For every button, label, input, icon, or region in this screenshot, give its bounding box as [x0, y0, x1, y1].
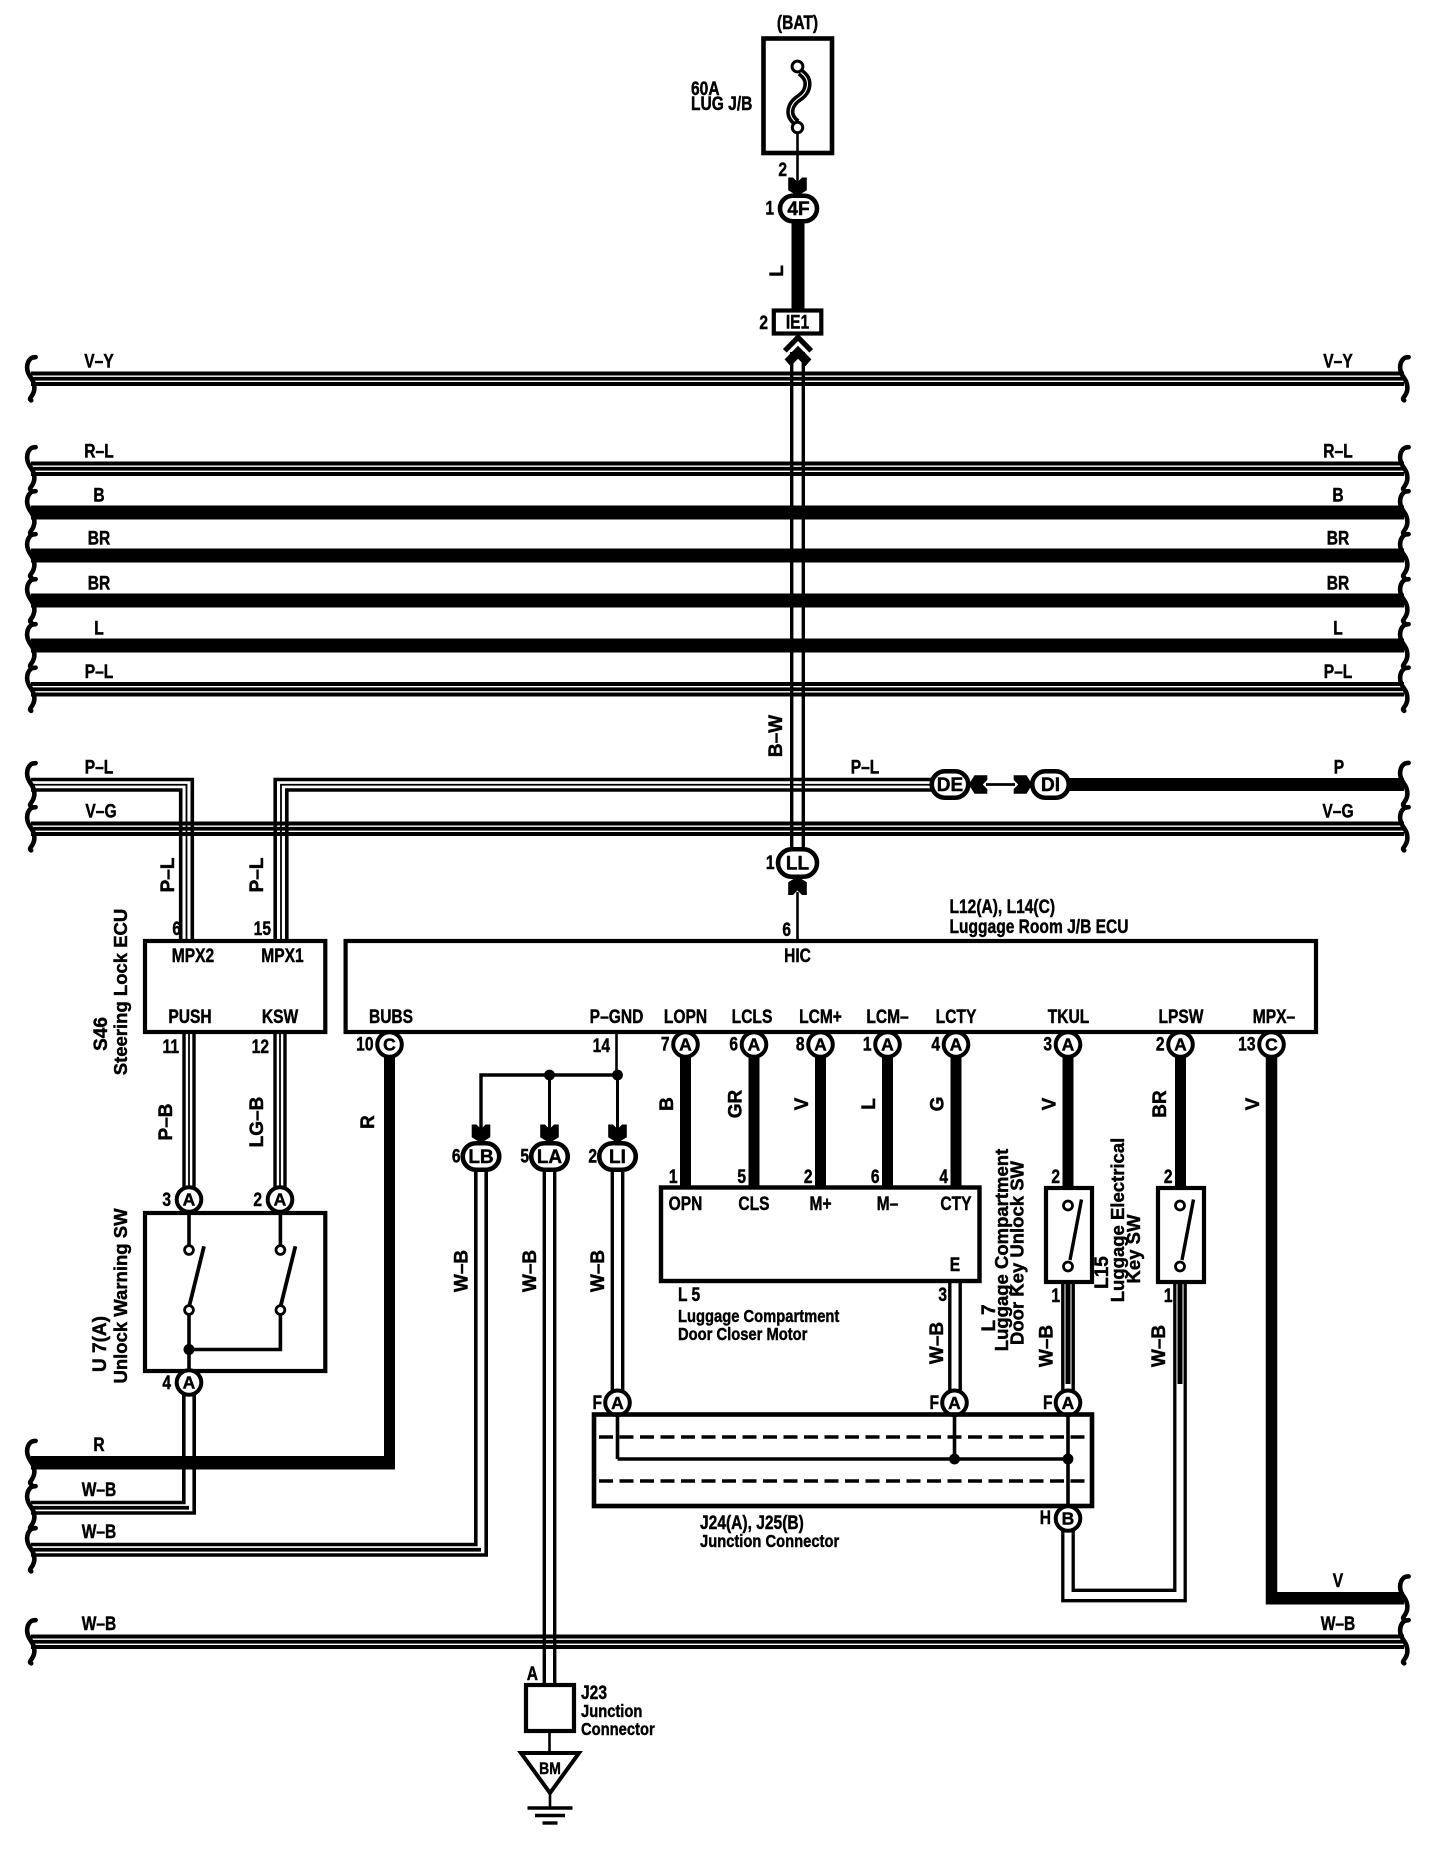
svg-text:Unlock Warning SW: Unlock Warning SW	[110, 1208, 131, 1384]
svg-text:L 5: L 5	[678, 1284, 701, 1306]
svg-text:V–G: V–G	[85, 800, 116, 822]
svg-text:Luggage Compartment: Luggage Compartment	[678, 1307, 840, 1327]
svg-text:P: P	[1334, 756, 1344, 778]
svg-text:A: A	[183, 1373, 196, 1393]
svg-text:3: 3	[1043, 1033, 1052, 1055]
svg-text:LCLS: LCLS	[732, 1006, 773, 1028]
svg-text:U 7(A): U 7(A)	[90, 1316, 111, 1372]
svg-text:V: V	[1040, 1097, 1061, 1110]
svg-text:1: 1	[765, 197, 774, 219]
svg-text:F: F	[592, 1392, 602, 1414]
svg-text:Door Key Unlock SW: Door Key Unlock SW	[1007, 1160, 1028, 1345]
svg-text:A: A	[611, 1393, 624, 1413]
svg-text:BR: BR	[1327, 572, 1350, 594]
svg-text:3: 3	[162, 1189, 171, 1211]
svg-text:LB: LB	[468, 1147, 493, 1168]
svg-text:GR: GR	[726, 1089, 747, 1118]
svg-text:1: 1	[1164, 1285, 1173, 1307]
svg-text:L: L	[859, 1098, 880, 1110]
svg-text:BM: BM	[539, 1760, 561, 1779]
svg-text:8: 8	[796, 1033, 805, 1055]
svg-text:Junction: Junction	[581, 1702, 642, 1722]
svg-text:CTY: CTY	[940, 1193, 972, 1215]
svg-text:2: 2	[1051, 1166, 1060, 1188]
svg-text:LL: LL	[786, 854, 810, 875]
svg-text:Connector: Connector	[581, 1720, 655, 1740]
svg-text:LCM+: LCM+	[799, 1006, 842, 1028]
svg-text:2: 2	[1164, 1166, 1173, 1188]
svg-text:R: R	[93, 1434, 105, 1456]
svg-text:LI: LI	[609, 1147, 626, 1168]
svg-text:Door Closer Motor: Door Closer Motor	[678, 1325, 808, 1345]
svg-text:R–L: R–L	[1323, 440, 1353, 462]
svg-text:M–: M–	[877, 1193, 899, 1215]
svg-text:5: 5	[520, 1145, 529, 1167]
svg-text:A: A	[1174, 1035, 1187, 1055]
svg-text:12: 12	[252, 1036, 269, 1058]
svg-text:A: A	[679, 1035, 692, 1055]
svg-text:V: V	[1243, 1097, 1264, 1110]
svg-text:6: 6	[729, 1033, 738, 1055]
svg-text:14: 14	[593, 1035, 611, 1057]
svg-text:W–B: W–B	[82, 1479, 117, 1501]
svg-text:W–B: W–B	[1149, 1325, 1170, 1367]
svg-text:J23: J23	[581, 1682, 607, 1704]
svg-text:LUG J/B: LUG J/B	[691, 93, 752, 115]
svg-text:W–B: W–B	[1321, 1613, 1356, 1635]
svg-text:2: 2	[778, 159, 787, 181]
svg-text:M+: M+	[809, 1193, 831, 1215]
svg-text:F: F	[1043, 1392, 1053, 1414]
svg-text:11: 11	[163, 1036, 180, 1058]
svg-text:2: 2	[588, 1145, 597, 1167]
svg-text:HIC: HIC	[784, 945, 811, 967]
svg-text:KSW: KSW	[262, 1006, 299, 1028]
svg-text:J24(A), J25(B): J24(A), J25(B)	[700, 1512, 804, 1534]
svg-text:A: A	[274, 1190, 287, 1210]
svg-text:IE1: IE1	[786, 311, 810, 333]
svg-text:B–W: B–W	[766, 715, 787, 757]
svg-text:Junction Connector: Junction Connector	[700, 1532, 840, 1552]
svg-text:BR: BR	[88, 527, 111, 549]
svg-text:5: 5	[737, 1166, 746, 1188]
svg-text:Steering Lock ECU: Steering Lock ECU	[110, 909, 131, 1076]
svg-text:C: C	[1265, 1035, 1278, 1055]
svg-text:6: 6	[452, 1145, 461, 1167]
svg-text:2: 2	[804, 1166, 813, 1188]
svg-text:P–L: P–L	[247, 857, 268, 892]
svg-text:W–B: W–B	[927, 1322, 948, 1364]
svg-text:W–B: W–B	[82, 1613, 117, 1635]
svg-text:6: 6	[172, 918, 181, 940]
svg-text:R–L: R–L	[84, 440, 114, 462]
svg-text:F: F	[929, 1392, 939, 1414]
svg-text:A: A	[748, 1035, 761, 1055]
svg-text:P–L: P–L	[851, 756, 880, 778]
svg-text:L12(A), L14(C): L12(A), L14(C)	[950, 896, 1056, 918]
svg-text:LOPN: LOPN	[664, 1006, 707, 1028]
svg-text:A: A	[527, 1663, 539, 1685]
svg-text:LCTY: LCTY	[936, 1006, 977, 1028]
svg-text:A: A	[948, 1393, 961, 1413]
svg-text:A: A	[1062, 1035, 1075, 1055]
svg-text:V–G: V–G	[1322, 800, 1353, 822]
svg-text:B: B	[657, 1097, 678, 1111]
svg-text:4F: 4F	[787, 199, 809, 220]
svg-text:P–L: P–L	[1324, 661, 1353, 683]
svg-text:V: V	[1333, 1570, 1344, 1592]
svg-text:H: H	[1040, 1507, 1051, 1529]
svg-text:3: 3	[938, 1284, 947, 1306]
svg-text:L: L	[767, 265, 788, 277]
svg-text:P–B: P–B	[156, 1104, 177, 1141]
svg-text:BR: BR	[1327, 527, 1350, 549]
svg-text:4: 4	[939, 1166, 948, 1188]
svg-text:S46: S46	[91, 1017, 112, 1051]
svg-text:4: 4	[162, 1372, 171, 1394]
svg-text:R: R	[358, 1115, 379, 1129]
svg-text:BUBS: BUBS	[369, 1006, 413, 1028]
svg-text:2: 2	[759, 312, 768, 334]
svg-text:PUSH: PUSH	[168, 1006, 211, 1028]
svg-text:15: 15	[254, 918, 272, 940]
svg-text:1: 1	[863, 1033, 872, 1055]
svg-text:V–Y: V–Y	[84, 350, 114, 372]
svg-text:V–Y: V–Y	[1323, 350, 1353, 372]
svg-text:OPN: OPN	[669, 1193, 703, 1215]
svg-text:W–B: W–B	[1037, 1325, 1058, 1367]
svg-text:P–L: P–L	[85, 756, 114, 778]
svg-text:BR: BR	[88, 572, 111, 594]
svg-text:DE: DE	[937, 775, 963, 796]
svg-text:2: 2	[253, 1189, 262, 1211]
svg-text:P–L: P–L	[158, 857, 179, 892]
svg-text:LPSW: LPSW	[1159, 1006, 1205, 1028]
svg-text:P–GND: P–GND	[590, 1006, 644, 1028]
svg-text:W–B: W–B	[82, 1521, 117, 1543]
svg-text:DI: DI	[1041, 775, 1060, 796]
svg-text:L: L	[94, 617, 104, 639]
svg-text:4: 4	[931, 1033, 940, 1055]
svg-text:6: 6	[782, 919, 791, 941]
svg-text:E: E	[950, 1254, 960, 1276]
svg-text:Luggage Room J/B ECU: Luggage Room J/B ECU	[950, 916, 1129, 938]
svg-text:MPX–: MPX–	[1253, 1006, 1296, 1028]
svg-text:C: C	[383, 1035, 396, 1055]
svg-text:10: 10	[356, 1033, 373, 1055]
svg-text:W–B: W–B	[520, 1250, 541, 1292]
svg-text:B: B	[1332, 484, 1343, 506]
svg-text:1: 1	[1051, 1285, 1060, 1307]
svg-text:MPX2: MPX2	[172, 945, 214, 967]
svg-text:A: A	[881, 1035, 894, 1055]
svg-text:13: 13	[1238, 1033, 1256, 1055]
svg-text:LG–B: LG–B	[247, 1097, 268, 1148]
svg-text:B: B	[93, 484, 104, 506]
svg-text:(BAT): (BAT)	[777, 12, 818, 34]
svg-text:CLS: CLS	[738, 1193, 769, 1215]
svg-text:1: 1	[669, 1166, 678, 1188]
svg-text:V: V	[792, 1097, 813, 1110]
svg-text:G: G	[928, 1097, 949, 1112]
svg-text:L: L	[1333, 617, 1343, 639]
svg-text:LCM–: LCM–	[866, 1006, 909, 1028]
svg-text:BR: BR	[1150, 1090, 1171, 1118]
svg-text:A: A	[950, 1035, 963, 1055]
svg-text:6: 6	[871, 1166, 880, 1188]
svg-text:2: 2	[1156, 1033, 1165, 1055]
svg-text:B: B	[1062, 1509, 1075, 1529]
svg-text:P–L: P–L	[85, 661, 114, 683]
svg-text:Key SW: Key SW	[1123, 1214, 1144, 1283]
svg-text:MPX1: MPX1	[261, 945, 304, 967]
svg-text:W–B: W–B	[588, 1250, 609, 1292]
svg-text:A: A	[183, 1190, 196, 1210]
svg-text:A: A	[1062, 1393, 1075, 1413]
svg-text:LA: LA	[537, 1147, 563, 1168]
svg-text:TKUL: TKUL	[1048, 1006, 1090, 1028]
svg-text:1: 1	[766, 852, 775, 874]
svg-text:A: A	[814, 1035, 827, 1055]
svg-text:7: 7	[661, 1033, 670, 1055]
svg-text:W–B: W–B	[452, 1250, 473, 1292]
